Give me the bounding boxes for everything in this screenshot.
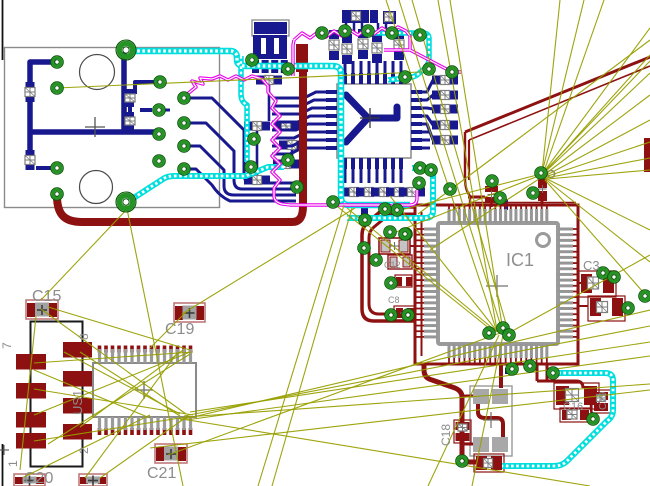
svg-text:C12: C12: [384, 260, 401, 270]
svg-text:C19: C19: [598, 391, 609, 410]
svg-text:C21: C21: [147, 465, 176, 482]
svg-text:C19: C19: [165, 321, 194, 338]
svg-text:7: 7: [0, 342, 14, 349]
svg-text:1: 1: [6, 460, 20, 467]
svg-text:C8: C8: [388, 295, 400, 305]
svg-text:C16: C16: [563, 401, 583, 413]
svg-text:C3: C3: [583, 258, 600, 273]
svg-text:8: 8: [77, 333, 91, 340]
svg-text:C20: C20: [24, 470, 53, 486]
svg-text:US1: US1: [70, 390, 85, 415]
svg-text:IC1: IC1: [506, 250, 534, 270]
svg-text:2: 2: [77, 447, 91, 454]
svg-text:C15: C15: [32, 288, 61, 305]
svg-text:C18: C18: [439, 424, 453, 446]
